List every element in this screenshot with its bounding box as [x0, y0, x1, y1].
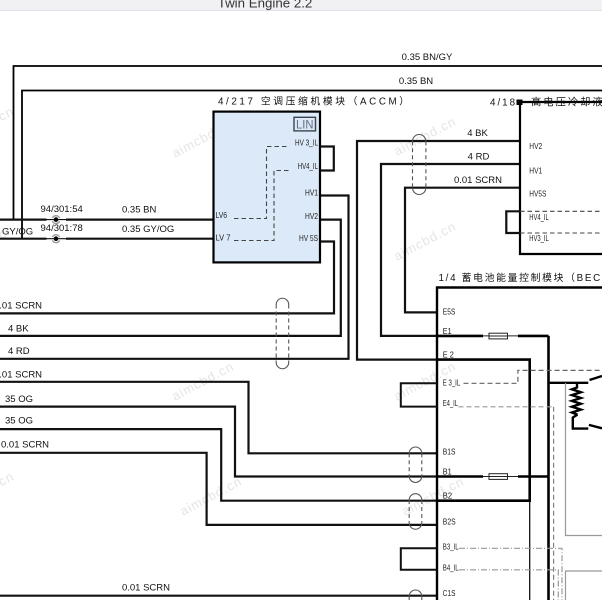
svg-text:0.01 SCRN: 0.01 SCRN — [1, 440, 49, 451]
svg-text:94/301:78: 94/301:78 — [41, 223, 83, 234]
svg-text:4 RD: 4 RD — [8, 346, 30, 357]
svg-text:Twin Engine 2.2: Twin Engine 2.2 — [218, 0, 313, 10]
svg-text:4/18: 4/18 — [490, 97, 517, 108]
svg-text:aimcbd.cn: aimcbd.cn — [391, 218, 458, 263]
svg-text:C1S: C1S — [443, 589, 456, 598]
svg-text:1/4 蓄电池能量控制模块（BECM）: 1/4 蓄电池能量控制模块（BECM） — [439, 271, 602, 284]
svg-text:0.01 SCRN: 0.01 SCRN — [454, 175, 502, 186]
svg-text:4 BK: 4 BK — [8, 324, 29, 335]
svg-text:LIN: LIN — [296, 120, 314, 132]
svg-text:0.35 BN: 0.35 BN — [122, 205, 156, 216]
svg-text:4/217 空调压缩机模块（ACCM）: 4/217 空调压缩机模块（ACCM） — [218, 95, 412, 108]
svg-text:LV6: LV6 — [216, 211, 228, 220]
svg-text:HV3_IL: HV3_IL — [529, 234, 549, 243]
svg-text:HV2: HV2 — [529, 142, 542, 151]
svg-text:HV 5S: HV 5S — [299, 234, 318, 243]
svg-text:B1: B1 — [443, 468, 452, 477]
svg-text:HV4_IL: HV4_IL — [298, 162, 319, 171]
svg-text:0.35 BN: 0.35 BN — [399, 76, 433, 87]
svg-text:0.35 BN/GY: 0.35 BN/GY — [402, 52, 453, 63]
svg-text:HV 3_IL: HV 3_IL — [295, 138, 318, 147]
svg-text:aimcbd.cn: aimcbd.cn — [399, 473, 466, 518]
svg-text:GY/OG: GY/OG — [2, 227, 33, 238]
svg-text:94/301:54: 94/301:54 — [41, 204, 83, 215]
svg-text:B2S: B2S — [443, 518, 456, 527]
svg-text:E4_IL: E4_IL — [443, 399, 459, 408]
svg-text:HV1: HV1 — [305, 188, 318, 197]
svg-text:B2: B2 — [443, 492, 453, 501]
svg-text:E 2: E 2 — [443, 351, 454, 360]
svg-text:B1S: B1S — [443, 448, 456, 457]
svg-text:0.35 GY/OG: 0.35 GY/OG — [122, 224, 174, 235]
svg-text:0.01 SCRN: 0.01 SCRN — [122, 583, 170, 594]
svg-text:HV4_IL: HV4_IL — [529, 213, 549, 222]
svg-text:0.01 SCRN: 0.01 SCRN — [0, 301, 42, 312]
svg-text:aimcbd.cn: aimcbd.cn — [0, 468, 17, 513]
svg-text:E 3_IL: E 3_IL — [443, 379, 461, 388]
svg-text:aimcbd.cn: aimcbd.cn — [391, 113, 458, 158]
svg-text:E1: E1 — [443, 327, 452, 336]
svg-text:LV 7: LV 7 — [216, 234, 232, 243]
svg-text:B4_IL: B4_IL — [443, 564, 459, 573]
svg-text:4 RD: 4 RD — [468, 152, 490, 163]
svg-text:0.01 SCRN: 0.01 SCRN — [0, 370, 42, 381]
svg-text:高电压冷却液加热器: 高电压冷却液加热器 — [531, 96, 602, 109]
svg-text:HV5S: HV5S — [529, 190, 546, 199]
svg-text:4 BK: 4 BK — [467, 128, 488, 139]
svg-text:aimcbd.cn: aimcbd.cn — [177, 473, 244, 518]
svg-text:E5S: E5S — [443, 308, 456, 317]
svg-text:HV1: HV1 — [529, 167, 542, 176]
svg-text:35 OG: 35 OG — [5, 416, 33, 427]
svg-text:B3_IL: B3_IL — [443, 542, 459, 551]
svg-text:HV2: HV2 — [305, 212, 318, 221]
svg-text:35 OG: 35 OG — [5, 394, 33, 405]
